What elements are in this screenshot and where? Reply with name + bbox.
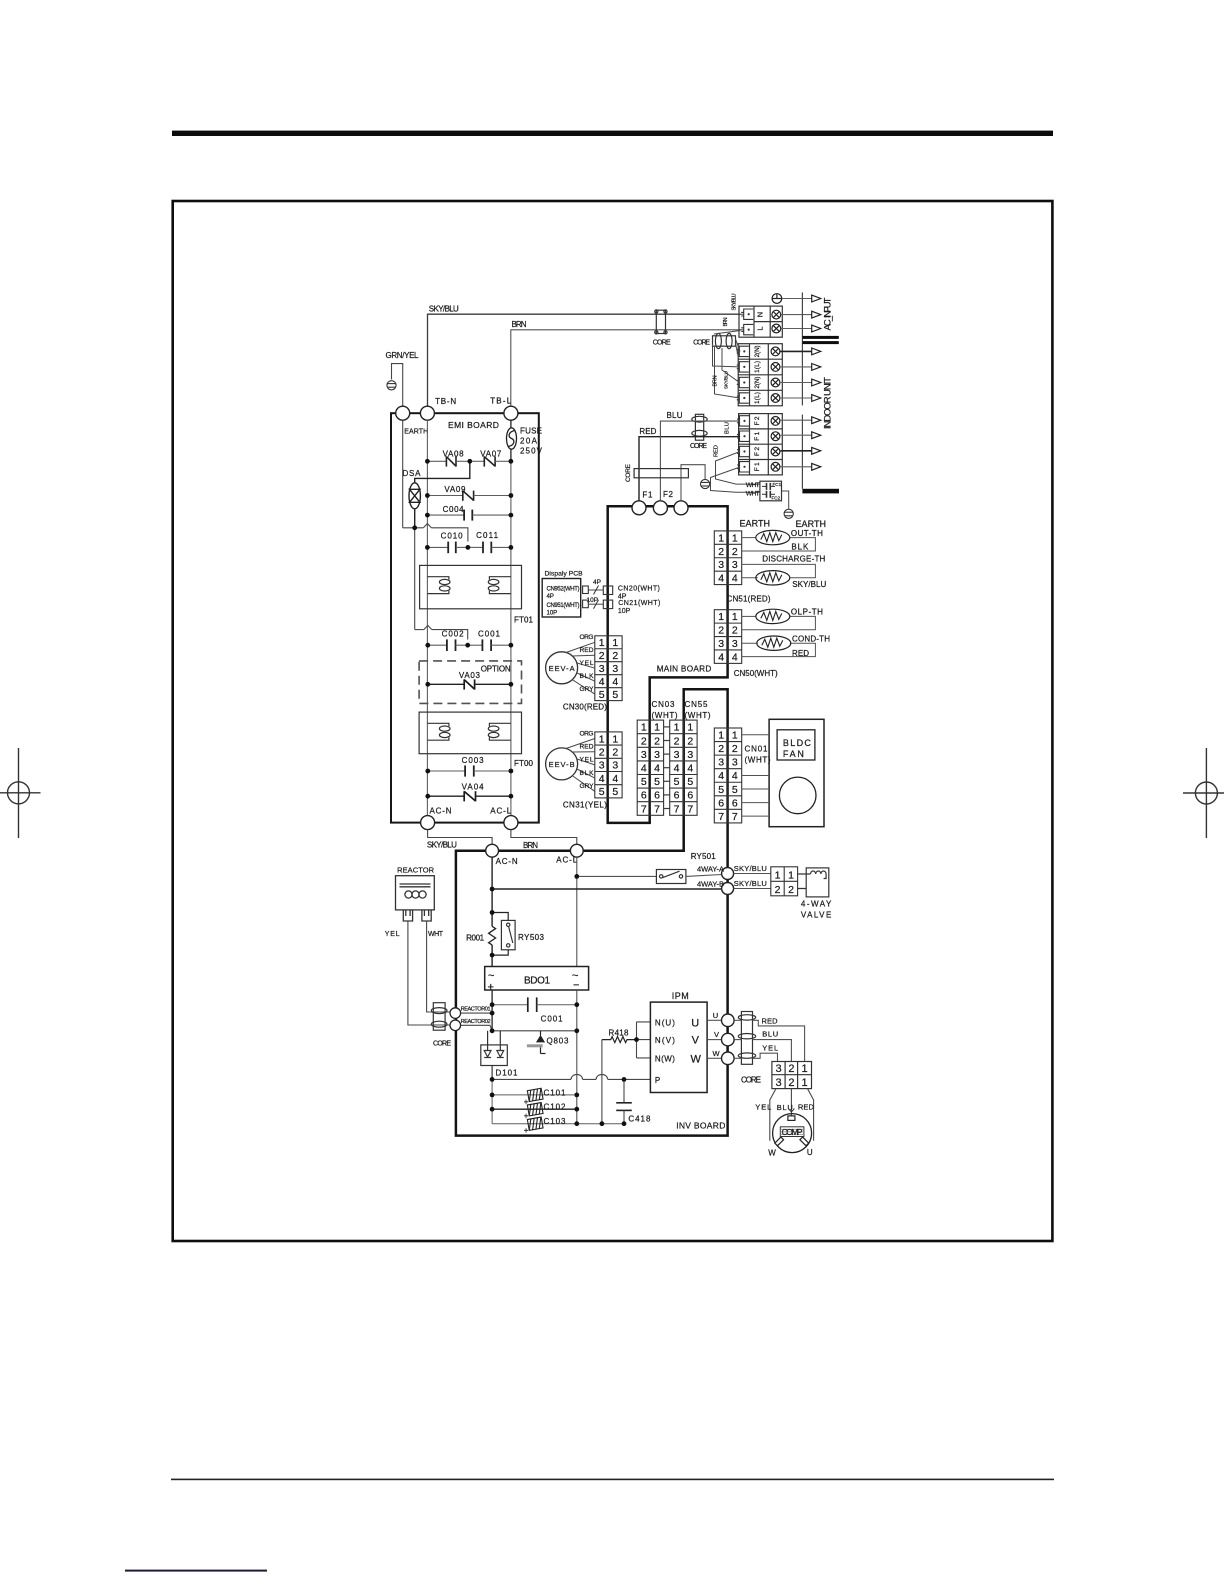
svg-text:Q803: Q803 xyxy=(547,1037,570,1046)
svg-text:EARTH: EARTH xyxy=(796,519,828,529)
connector CN55 xyxy=(670,720,697,815)
earth bus lower xyxy=(415,528,468,640)
terminal V xyxy=(722,1033,735,1046)
svg-text:6: 6 xyxy=(654,790,660,802)
svg-text:1: 1 xyxy=(687,722,693,734)
finger row 2 block2 xyxy=(737,362,749,372)
svg-text:1: 1 xyxy=(641,722,647,734)
wire + arrow xyxy=(780,350,812,352)
svg-text:10P: 10P xyxy=(618,608,631,615)
svg-text:1: 1 xyxy=(718,730,724,742)
svg-text:CORE: CORE xyxy=(625,463,632,482)
svg-text:W: W xyxy=(713,1049,721,1058)
svg-text:GRY: GRY xyxy=(580,783,595,790)
terminal F1 xyxy=(632,501,646,515)
svg-text:FC2: FC2 xyxy=(772,496,781,501)
svg-text:R001: R001 xyxy=(466,934,485,943)
reactor wires xyxy=(408,921,450,1025)
svg-text:U: U xyxy=(713,1011,718,1020)
svg-text:AC-N: AC-N xyxy=(430,807,452,816)
svg-text:EARTH: EARTH xyxy=(740,519,772,529)
svg-text:INV BOARD: INV BOARD xyxy=(676,1121,725,1131)
svg-text:4P: 4P xyxy=(593,579,601,586)
svg-text:AC-N: AC-N xyxy=(496,857,518,866)
wire + arrow xyxy=(780,419,811,421)
svg-text:C001: C001 xyxy=(478,630,501,639)
svg-text:6: 6 xyxy=(718,797,724,809)
OPTION dashed box xyxy=(419,661,521,704)
finger leads block1 xyxy=(741,314,744,330)
svg-text:1: 1 xyxy=(599,733,605,745)
wire AC-L down xyxy=(576,857,578,966)
svg-text:C004: C004 xyxy=(443,505,465,514)
svg-text:2: 2 xyxy=(612,747,618,759)
svg-text:ORG: ORG xyxy=(580,634,594,641)
BLDC fan box xyxy=(769,719,824,826)
svg-text:3: 3 xyxy=(718,757,724,769)
thermistor OLP-TH xyxy=(756,609,790,623)
svg-text:GRN/YEL: GRN/YEL xyxy=(386,351,420,360)
svg-text:N(V): N(V) xyxy=(655,1036,675,1045)
svg-text:CORE: CORE xyxy=(741,1076,761,1085)
wire BRN (top long) xyxy=(511,330,741,407)
capacitor C103 xyxy=(527,1117,543,1130)
svg-text:2(N): 2(N) xyxy=(754,345,761,357)
core (reactor) xyxy=(431,1003,447,1030)
svg-text:3: 3 xyxy=(732,559,738,571)
core (mains pair) xyxy=(655,310,667,334)
wires to 4way connector xyxy=(734,873,771,875)
svg-text:5: 5 xyxy=(641,776,647,788)
svg-text:3: 3 xyxy=(732,757,738,769)
main board outline xyxy=(608,506,728,823)
EMI junction dots xyxy=(412,459,513,799)
earth screw (GRN/YEL) xyxy=(387,381,396,390)
svg-text:6: 6 xyxy=(641,790,647,802)
svg-text:3: 3 xyxy=(687,749,693,761)
screw terminal xyxy=(771,378,780,387)
svg-text:SKY/BLU: SKY/BLU xyxy=(734,879,767,888)
wire SKY/BLU (top long) xyxy=(428,314,741,406)
divider bottom bar xyxy=(802,489,839,494)
svg-text:V: V xyxy=(714,1030,719,1039)
svg-text:4: 4 xyxy=(599,773,605,785)
svg-text:2: 2 xyxy=(599,747,605,759)
connector CN01 xyxy=(714,728,741,823)
left cap bus xyxy=(491,1079,493,1123)
terminal AC-L xyxy=(504,816,518,830)
svg-text:AC-L: AC-L xyxy=(556,856,578,865)
finger row 1 block2 xyxy=(737,346,749,356)
svg-text:CORE: CORE xyxy=(690,443,707,450)
svg-text:F1: F1 xyxy=(754,462,761,471)
svg-text:4: 4 xyxy=(599,676,605,688)
svg-text:CN21(WHT): CN21(WHT) xyxy=(618,600,660,607)
svg-text:TB-L: TB-L xyxy=(490,397,512,406)
svg-text:CN51(RED): CN51(RED) xyxy=(727,595,771,604)
svg-text:CORE: CORE xyxy=(653,340,671,347)
thermistor OLP-TH loop xyxy=(742,616,816,656)
C103 row / bottom bus xyxy=(492,1123,624,1125)
svg-text:2: 2 xyxy=(599,650,605,662)
svg-text:2(N): 2(N) xyxy=(754,377,761,389)
svg-text:6: 6 xyxy=(687,790,693,802)
svg-text:7: 7 xyxy=(732,811,738,823)
wire BLU (V) xyxy=(734,1039,741,1041)
wire FC to earth screw xyxy=(782,491,789,509)
svg-text:3: 3 xyxy=(654,749,660,761)
svg-text:10P: 10P xyxy=(547,611,558,617)
finger row 3 block2 xyxy=(737,377,749,387)
svg-text:4: 4 xyxy=(718,652,724,664)
core (comp wires) xyxy=(738,1012,755,1065)
diagram frame xyxy=(173,201,1053,1241)
C102 row xyxy=(492,1108,577,1110)
svg-text:3: 3 xyxy=(674,749,680,761)
terminal block AC input (N,L) xyxy=(739,306,782,337)
core choke vertical (F1F2) xyxy=(692,414,707,440)
svg-text:4: 4 xyxy=(612,773,618,785)
svg-text:EMI BOARD: EMI BOARD xyxy=(448,420,499,430)
svg-text:U: U xyxy=(691,1017,699,1029)
svg-text:1: 1 xyxy=(612,637,618,649)
svg-text:2: 2 xyxy=(732,743,738,755)
EMI board xyxy=(391,413,539,822)
svg-text:CN50(WHT): CN50(WHT) xyxy=(734,669,778,678)
svg-text:C003: C003 xyxy=(462,756,485,765)
svg-text:CORE: CORE xyxy=(433,1041,451,1048)
svg-text:CORE: CORE xyxy=(693,339,710,346)
svg-text:CN20(WHT): CN20(WHT) xyxy=(618,586,660,593)
svg-text:RED: RED xyxy=(798,1103,815,1112)
svg-text:+: + xyxy=(524,1126,529,1135)
C101 row xyxy=(492,1094,577,1096)
svg-text:BDO1: BDO1 xyxy=(524,976,551,987)
terminal EARTH xyxy=(396,406,410,420)
svg-text:C102: C102 xyxy=(544,1103,567,1112)
svg-text:RY503: RY503 xyxy=(518,933,545,942)
connector CN30 xyxy=(595,636,622,701)
crop mark right xyxy=(1183,748,1224,838)
finger row 1 block3 xyxy=(737,416,749,426)
svg-text:WHT: WHT xyxy=(746,491,760,498)
svg-text:4: 4 xyxy=(732,652,738,664)
divider double bar xyxy=(802,336,838,339)
svg-text:4: 4 xyxy=(687,763,693,775)
svg-text:4: 4 xyxy=(732,573,738,585)
svg-text:1: 1 xyxy=(718,532,724,544)
svg-text:BLK: BLK xyxy=(580,673,595,680)
wire SKY/BLU AC-N jumper xyxy=(428,830,493,845)
thermistor OUT-TH xyxy=(756,530,790,544)
svg-text:V: V xyxy=(692,1035,700,1047)
connector 4way valve xyxy=(771,867,798,896)
footer mark xyxy=(125,1570,267,1572)
svg-text:7: 7 xyxy=(654,803,660,815)
connector CN21 socket xyxy=(603,600,612,609)
wires block3 to line caps xyxy=(716,452,760,485)
svg-text:3: 3 xyxy=(718,559,724,571)
capacitor C010 xyxy=(427,542,468,554)
core choke (indoor pair) xyxy=(713,333,736,348)
wire + arrow xyxy=(780,450,811,452)
svg-text:~: ~ xyxy=(488,970,494,982)
svg-text:1: 1 xyxy=(732,730,738,742)
svg-text:5: 5 xyxy=(599,786,605,798)
capacitor C002 xyxy=(428,639,468,651)
svg-text:W: W xyxy=(691,1053,702,1065)
svg-text:4P: 4P xyxy=(547,594,554,600)
svg-text:SKY/BLU: SKY/BLU xyxy=(429,305,459,314)
svg-text:REACTOR02: REACTOR02 xyxy=(461,1019,491,1025)
svg-text:FUSE: FUSE xyxy=(520,427,542,436)
COMP label xyxy=(780,1127,804,1137)
capacitor C003 xyxy=(428,765,511,776)
wire + arrow L xyxy=(781,328,812,330)
svg-text:1(L): 1(L) xyxy=(754,392,761,404)
svg-text:SKY/BLU: SKY/BLU xyxy=(792,580,826,589)
svg-text:BRN: BRN xyxy=(523,841,538,850)
svg-text:C001: C001 xyxy=(541,1015,564,1024)
terminal earth pin xyxy=(674,501,688,515)
earth screw AC input xyxy=(772,294,782,304)
svg-text:N: N xyxy=(755,312,764,317)
wire AC-N to 4WAY-B xyxy=(492,888,722,890)
svg-text:YEL: YEL xyxy=(580,660,594,667)
svg-text:OLP-TH: OLP-TH xyxy=(791,608,823,617)
chassis screw (main) xyxy=(701,479,710,488)
svg-text:3: 3 xyxy=(641,749,647,761)
R418 leg down xyxy=(601,1040,603,1124)
screw terminal xyxy=(771,462,780,471)
wire YEL (W) xyxy=(734,1057,741,1059)
svg-text:C101: C101 xyxy=(544,1088,567,1097)
svg-text:BRN: BRN xyxy=(712,375,718,386)
svg-text:3: 3 xyxy=(599,760,605,772)
svg-text:4: 4 xyxy=(732,770,738,782)
svg-text:2: 2 xyxy=(674,735,680,747)
svg-text:REACTOR01: REACTOR01 xyxy=(461,1007,491,1013)
screw terminal xyxy=(771,347,780,356)
connector CN03 xyxy=(637,720,663,815)
svg-text:(WHT): (WHT) xyxy=(745,756,771,765)
terminal AC-N (inv) xyxy=(486,844,499,857)
harness 10P xyxy=(588,603,603,605)
line filter FT00 xyxy=(419,712,521,754)
svg-text:RED: RED xyxy=(792,649,809,658)
wires core to block2 xyxy=(713,331,741,399)
svg-text:2: 2 xyxy=(788,1063,794,1075)
terminal U xyxy=(722,1014,735,1027)
IPM box xyxy=(650,1002,707,1092)
svg-text:2: 2 xyxy=(718,625,724,637)
screw terminal xyxy=(771,363,780,372)
thermistor COND-TH xyxy=(757,636,791,650)
diode module D101 xyxy=(481,1031,508,1080)
svg-text:TB-N: TB-N xyxy=(435,397,456,406)
svg-text:BRN: BRN xyxy=(723,317,729,326)
capacitor C004 xyxy=(427,510,511,521)
finger row 3 block3 xyxy=(737,446,749,456)
display PCB box xyxy=(542,579,581,618)
crop mark left xyxy=(0,748,41,838)
bus AC-N (EMI left) xyxy=(426,420,428,815)
svg-text:FAN: FAN xyxy=(783,749,805,759)
connector stub CN951 xyxy=(583,600,589,608)
svg-text:CN55: CN55 xyxy=(685,700,709,709)
svg-text:P: P xyxy=(655,1076,660,1085)
capacitor C102 xyxy=(527,1103,543,1116)
terminal AC-L (inv) xyxy=(570,844,583,857)
svg-text:7: 7 xyxy=(641,803,647,815)
terminal REACTOR01 xyxy=(450,1008,461,1019)
svg-text:7: 7 xyxy=(674,803,680,815)
svg-text:1: 1 xyxy=(732,532,738,544)
CN03-CN55 links xyxy=(664,727,670,809)
wire GRN/YEL xyxy=(392,364,403,407)
svg-text:AC-L: AC-L xyxy=(490,807,512,816)
svg-text:1: 1 xyxy=(802,1063,808,1075)
svg-text:1: 1 xyxy=(718,611,724,623)
svg-text:SKY/BLU: SKY/BLU xyxy=(723,371,728,389)
terminal block F1F2 xyxy=(739,414,783,475)
connector CN20 socket xyxy=(603,586,612,595)
surge arrester DSA xyxy=(409,461,470,528)
svg-text:Dispaly PCB: Dispaly PCB xyxy=(545,571,584,578)
wire + arrow xyxy=(780,466,811,468)
svg-text:RED: RED xyxy=(580,744,594,751)
svg-text:5: 5 xyxy=(654,776,660,788)
screw terminal L xyxy=(772,324,781,333)
svg-text:IPM: IPM xyxy=(672,991,690,1001)
svg-text:C011: C011 xyxy=(476,531,499,540)
resistor R001 xyxy=(489,926,496,945)
capacitor C101 xyxy=(527,1088,543,1101)
svg-text:N(W): N(W) xyxy=(655,1054,675,1063)
svg-text:EARTH: EARTH xyxy=(404,429,428,436)
svg-text:MAIN BOARD: MAIN BOARD xyxy=(657,665,712,674)
svg-text:1: 1 xyxy=(654,722,660,734)
wire + arrow xyxy=(780,382,812,384)
thermistor DISCHARGE-TH xyxy=(756,571,790,585)
terminal REACTOR02 xyxy=(450,1020,461,1031)
svg-text:SKY/BLU: SKY/BLU xyxy=(732,293,738,310)
varistor VA09 xyxy=(427,491,511,501)
svg-text:2: 2 xyxy=(788,884,794,896)
svg-text:1(L): 1(L) xyxy=(754,361,761,373)
svg-text:6: 6 xyxy=(674,790,680,802)
svg-text:2: 2 xyxy=(718,743,724,755)
svg-text:BLK: BLK xyxy=(580,770,595,777)
svg-text:YEL: YEL xyxy=(762,1043,778,1052)
relay RY503 xyxy=(501,920,515,949)
svg-text:L: L xyxy=(755,326,764,330)
svg-text:10P: 10P xyxy=(587,597,599,604)
svg-text:VA09: VA09 xyxy=(444,485,466,494)
capacitor C001 (EMI) xyxy=(468,639,511,651)
screw terminal xyxy=(771,432,780,441)
svg-text:CN952(WHT): CN952(WHT) xyxy=(547,587,580,593)
svg-text:COND-TH: COND-TH xyxy=(792,635,830,644)
REACTOR02 wire / Q803 row xyxy=(461,1025,577,1031)
svg-text:3: 3 xyxy=(775,1077,781,1089)
svg-text:FT01: FT01 xyxy=(514,616,534,625)
svg-text:−: − xyxy=(573,980,579,992)
main board lobe + INV board outline xyxy=(456,689,728,1135)
transistor Q803 xyxy=(527,1031,546,1054)
svg-text:(WHT): (WHT) xyxy=(652,711,678,720)
svg-text:2: 2 xyxy=(654,735,660,747)
svg-text:VA03: VA03 xyxy=(459,671,481,680)
line filter FT01 xyxy=(420,565,522,608)
svg-text:OPTION: OPTION xyxy=(481,665,511,674)
svg-text:F1: F1 xyxy=(642,491,653,500)
svg-text:4: 4 xyxy=(641,763,647,775)
svg-text:4WAY-A: 4WAY-A xyxy=(697,865,724,874)
svg-text:2: 2 xyxy=(732,546,738,558)
svg-text:VA04: VA04 xyxy=(462,783,485,792)
wire + arrow xyxy=(780,397,812,399)
svg-text:2: 2 xyxy=(687,735,693,747)
svg-text:CN03: CN03 xyxy=(652,700,676,709)
capacitor C011 xyxy=(468,542,511,554)
wire P xyxy=(492,1074,650,1079)
svg-text:3: 3 xyxy=(612,760,618,772)
screw terminal xyxy=(771,417,780,426)
terminal W xyxy=(722,1052,735,1065)
wire BRN AC-L jumper xyxy=(511,830,577,845)
svg-text:5: 5 xyxy=(687,776,693,788)
svg-text:VA07: VA07 xyxy=(480,450,502,459)
svg-text:5: 5 xyxy=(612,786,618,798)
svg-text:WHT: WHT xyxy=(428,931,444,938)
svg-text:BLU: BLU xyxy=(725,422,731,434)
EEV-B fan wires xyxy=(566,739,595,792)
screw terminal xyxy=(771,394,780,403)
fan motor circle xyxy=(779,777,816,814)
capacitor C418 xyxy=(616,1079,632,1123)
terminal 4WAY-A xyxy=(722,868,734,880)
svg-text:EEV-B: EEV-B xyxy=(549,760,575,769)
chassis screw (FC) xyxy=(784,509,793,518)
bus AC-L (EMI right) xyxy=(510,461,512,815)
valve EEV-B xyxy=(546,748,578,780)
connector CN31 xyxy=(595,732,622,798)
svg-text:RY501: RY501 xyxy=(691,852,717,861)
resistor R418 xyxy=(602,1037,637,1043)
terminal AC-N xyxy=(421,816,435,830)
wire + arrow earth xyxy=(782,298,812,300)
svg-text:F1: F1 xyxy=(754,431,761,440)
DC- bus xyxy=(576,990,578,1124)
varistor VA07 xyxy=(470,456,511,466)
section divider line xyxy=(801,292,803,405)
svg-text:250V: 250V xyxy=(520,447,543,456)
bridge rectifier BD01 xyxy=(485,967,589,991)
svg-text:FT00: FT00 xyxy=(514,759,534,768)
screw terminal N xyxy=(772,310,781,319)
svg-text:RED: RED xyxy=(639,427,656,436)
svg-text:5: 5 xyxy=(732,784,738,796)
svg-text:AC_INPUT: AC_INPUT xyxy=(823,297,834,330)
svg-text:1: 1 xyxy=(612,733,618,745)
connector CN51 xyxy=(714,531,741,585)
connector CN50 xyxy=(714,610,741,664)
svg-text:5: 5 xyxy=(612,689,618,701)
svg-text:3: 3 xyxy=(612,663,618,675)
wire AC-N down xyxy=(491,857,493,926)
svg-text:R418: R418 xyxy=(609,1029,630,1038)
